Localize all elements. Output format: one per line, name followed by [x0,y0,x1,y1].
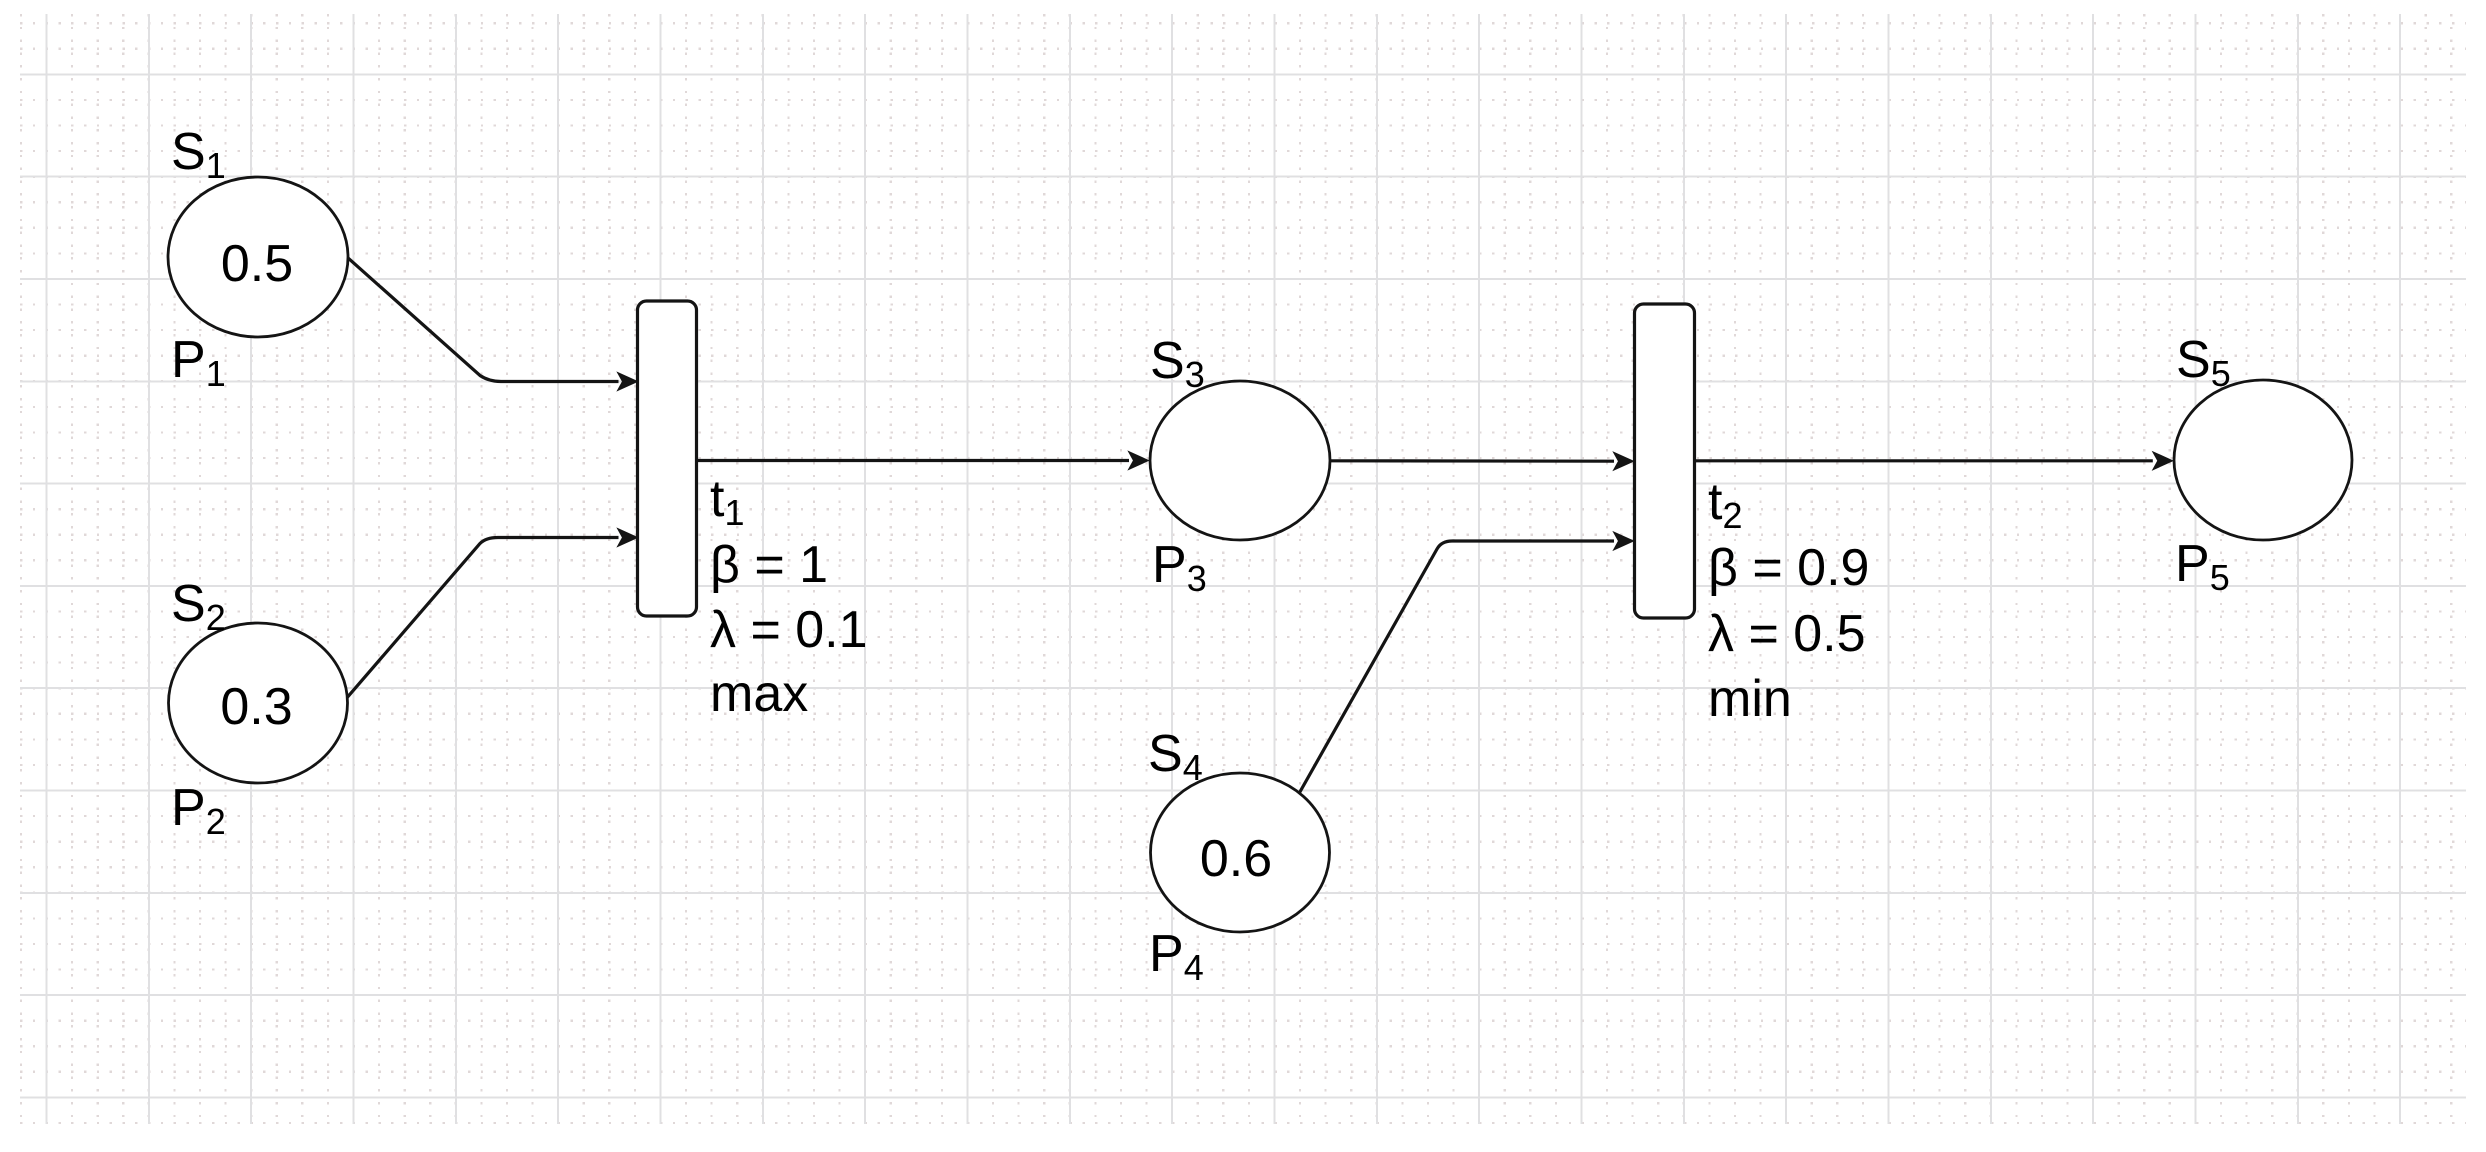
wire arc P4 to t2 [1279,532,1634,829]
node place P2 [169,623,348,783]
label t2 parameters [1708,473,1869,728]
svg-text:min: min [1708,670,1792,728]
wire arc P3 to t2 [1330,452,1634,470]
wire arc t2 to P5 [1695,452,2173,470]
wire arc t1 to P3 [697,452,1149,470]
svg-text:0.5: 0.5 [221,235,293,293]
node place P4 [1151,773,1330,932]
wire arc P1 to t1 [320,233,638,391]
label t1 parameters [710,470,868,723]
svg-text:0.6: 0.6 [1200,830,1272,888]
svg-text:λ = 0.5: λ = 0.5 [1708,605,1866,663]
wire arc P2 to t1 [320,529,638,730]
transition t1 bar [638,301,697,616]
svg-text:0.3: 0.3 [220,678,292,736]
svg-text:λ = 0.1: λ = 0.1 [710,601,868,659]
node place P1 [168,177,348,337]
node place P3 [1150,381,1330,540]
svg-text:max: max [710,665,808,723]
svg-text:β = 1: β = 1 [710,536,828,594]
svg-text:β = 0.9: β = 0.9 [1708,539,1869,597]
node place P5 [2174,380,2352,540]
transition t2 bar [1635,304,1695,618]
